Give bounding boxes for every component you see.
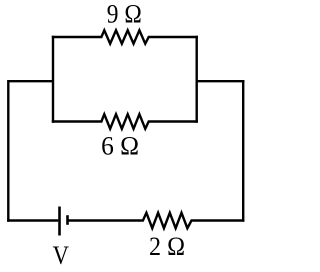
svg-text:6 Ω: 6 Ω <box>101 131 139 161</box>
svg-text:9 Ω: 9 Ω <box>107 0 142 29</box>
svg-text:V: V <box>53 240 69 270</box>
svg-text:2 Ω: 2 Ω <box>149 231 185 261</box>
